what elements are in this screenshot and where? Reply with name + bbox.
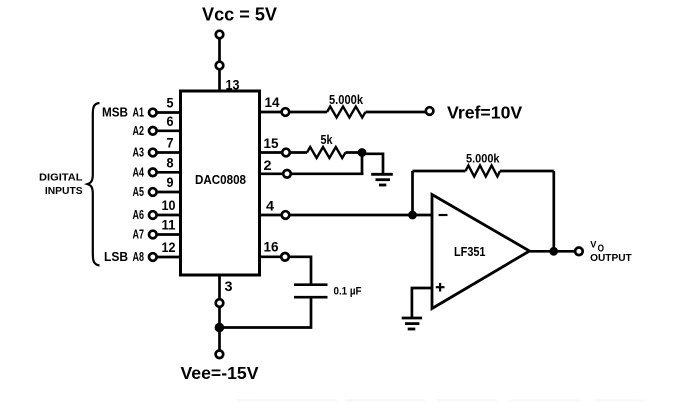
pin number 10 bbox=[162, 198, 176, 213]
junction dot output node bbox=[549, 247, 558, 256]
terminal A8 bbox=[149, 253, 157, 261]
svg-text:0.1 µF: 0.1 µF bbox=[334, 285, 362, 297]
resistor R1 5.000k zigzag bbox=[327, 107, 366, 118]
net label Vref=10V bbox=[447, 103, 523, 123]
svg-text:9: 9 bbox=[167, 175, 174, 190]
wire A2 to pin 6 bbox=[157, 129, 182, 132]
svg-text:A1: A1 bbox=[133, 106, 145, 120]
wire pin 15 to R2 bbox=[259, 151, 364, 154]
capacitor C1 plates bbox=[294, 285, 328, 298]
svg-text:Vref=10V: Vref=10V bbox=[447, 103, 523, 123]
input label A6 bbox=[133, 208, 145, 222]
op-amp U2 label LF351 bbox=[454, 244, 486, 259]
svg-text:4: 4 bbox=[266, 199, 275, 214]
svg-text:10: 10 bbox=[162, 198, 176, 213]
input label A1 bbox=[133, 106, 145, 120]
terminal Vref bbox=[426, 107, 434, 115]
ghost caption fragment bottom bbox=[237, 399, 645, 402]
op-amp U2 triangle bbox=[432, 195, 530, 309]
svg-text:Vcc = 5V: Vcc = 5V bbox=[202, 5, 277, 25]
wire op-amp output bbox=[530, 250, 575, 253]
input label A2 bbox=[133, 124, 145, 138]
svg-text:A2: A2 bbox=[133, 124, 145, 138]
svg-text:LF351: LF351 bbox=[454, 244, 486, 259]
value label 5.000k R1 bbox=[329, 93, 363, 107]
wire node to pin 2 vertical bbox=[361, 153, 364, 174]
connection circle pin 15 bbox=[282, 149, 290, 157]
terminal A7 bbox=[149, 231, 157, 239]
svg-text:A6: A6 bbox=[133, 208, 145, 222]
wire pin 4 to op-amp inverting input bbox=[259, 214, 432, 217]
pin number 16 bbox=[264, 239, 279, 254]
input label A8 bbox=[133, 250, 145, 264]
pin number 14 bbox=[265, 95, 280, 110]
net label VO bbox=[590, 240, 604, 255]
wire pin 2 bbox=[259, 172, 364, 175]
ground G2 bbox=[402, 318, 422, 329]
input label A4 bbox=[133, 165, 145, 179]
value label 5.000k R3 bbox=[466, 151, 500, 165]
wire feedback left vertical bbox=[411, 171, 414, 215]
connection circle pin 4 bbox=[282, 211, 290, 219]
wire Vcc between terminals bbox=[218, 39, 221, 61]
svg-text:LSB: LSB bbox=[104, 249, 128, 264]
svg-text:DIGITAL: DIGITAL bbox=[39, 172, 83, 184]
svg-text:A5: A5 bbox=[133, 185, 145, 199]
resistor R2 5k zigzag bbox=[307, 147, 346, 158]
wire non-inverting input to ground bbox=[412, 288, 432, 317]
wire A7 to pin 11 bbox=[157, 233, 182, 236]
wire A3 to pin 7 bbox=[157, 151, 182, 154]
connection circle pin 14 bbox=[282, 108, 290, 116]
svg-text:11: 11 bbox=[162, 218, 176, 233]
svg-text:OUTPUT: OUTPUT bbox=[590, 253, 632, 264]
label MSB bbox=[102, 105, 128, 120]
svg-text:16: 16 bbox=[264, 239, 279, 254]
junction dot node 15/2 bbox=[358, 148, 367, 157]
op-amp plus sign bbox=[436, 283, 445, 292]
svg-text:A3: A3 bbox=[133, 146, 145, 160]
svg-text:A8: A8 bbox=[133, 250, 145, 264]
svg-text:7: 7 bbox=[167, 136, 174, 151]
terminal Vee bbox=[216, 351, 224, 359]
input label A3 bbox=[133, 146, 145, 160]
wire A1 to pin 5 bbox=[157, 111, 182, 114]
input label A7 bbox=[133, 228, 145, 242]
wire pin 14 to Vref bbox=[259, 111, 426, 114]
label DIGITAL bbox=[39, 172, 83, 184]
terminal A2 bbox=[149, 127, 157, 135]
svg-text:14: 14 bbox=[265, 95, 280, 110]
svg-text:5: 5 bbox=[167, 96, 174, 111]
junction dot Vee node bbox=[215, 323, 225, 333]
terminal A4 bbox=[149, 169, 157, 177]
svg-text:A7: A7 bbox=[133, 228, 145, 242]
connection circle pin 2 bbox=[283, 170, 291, 178]
terminal A3 bbox=[149, 149, 157, 157]
wire node to ground G1 bbox=[362, 154, 383, 173]
pin number 15 bbox=[264, 136, 279, 151]
wire A6 to pin 10 bbox=[157, 214, 182, 217]
ground G1 bbox=[371, 174, 393, 185]
IC U1 label DAC0808 bbox=[195, 172, 246, 187]
svg-text:2: 2 bbox=[264, 158, 272, 173]
svg-text:DAC0808: DAC0808 bbox=[195, 172, 246, 187]
net label Vcc = 5V bbox=[202, 5, 277, 25]
pin number 8 bbox=[167, 155, 174, 170]
wire Vcc to pin 13 bbox=[218, 70, 221, 92]
pin number 3 bbox=[225, 279, 234, 294]
svg-text:5k: 5k bbox=[321, 132, 334, 147]
pin number 2 bbox=[264, 158, 272, 173]
terminal Vcc lower bbox=[216, 62, 224, 70]
svg-text:MSB: MSB bbox=[102, 105, 128, 120]
IC U1 DAC0808 body bbox=[181, 91, 260, 275]
connection circle pin 16 bbox=[281, 253, 289, 261]
svg-text:8: 8 bbox=[167, 155, 174, 170]
pin number 4 bbox=[266, 199, 275, 214]
wire A4 to pin 8 bbox=[157, 171, 182, 174]
resistor R3 5.000k zigzag feedback bbox=[466, 166, 501, 177]
wire feedback top bbox=[413, 170, 554, 173]
terminal Vcc upper bbox=[216, 31, 224, 39]
net label OUTPUT bbox=[590, 253, 632, 264]
terminal A1 bbox=[149, 109, 157, 117]
svg-text:3: 3 bbox=[225, 279, 234, 294]
brace digital inputs bbox=[88, 103, 100, 266]
label INPUTS bbox=[45, 185, 83, 197]
svg-text:5.000k: 5.000k bbox=[329, 93, 363, 107]
pin number 6 bbox=[167, 114, 174, 129]
pin number 5 bbox=[167, 96, 174, 111]
terminal A5 bbox=[149, 188, 157, 196]
wire pin 16 to capacitor C1 bbox=[259, 257, 311, 284]
terminal output bbox=[575, 248, 583, 256]
net label Vee=-15V bbox=[181, 363, 259, 383]
connection circle pin 3 bbox=[216, 299, 224, 307]
svg-text:5.000k: 5.000k bbox=[466, 151, 500, 165]
value label 0.1 uF C1 bbox=[334, 285, 362, 297]
pin number 11 bbox=[162, 218, 176, 233]
pin number 13 bbox=[226, 78, 240, 93]
svg-text:V: V bbox=[590, 240, 597, 251]
op-amp minus sign bbox=[439, 214, 448, 216]
svg-text:INPUTS: INPUTS bbox=[45, 185, 83, 197]
wire A5 to pin 9 bbox=[157, 191, 182, 194]
label LSB bbox=[104, 249, 128, 264]
wire A8 to pin 12 bbox=[157, 256, 182, 259]
pin number 12 bbox=[162, 240, 176, 255]
wire pin 3 to Vee terminal bbox=[218, 275, 221, 354]
svg-text:12: 12 bbox=[162, 240, 176, 255]
junction dot node inverting input bbox=[408, 211, 417, 220]
svg-text:Vee=-15V: Vee=-15V bbox=[181, 363, 259, 383]
wire capacitor C1 to Vee node bbox=[219, 297, 311, 327]
svg-text:15: 15 bbox=[264, 136, 279, 151]
input label A5 bbox=[133, 185, 145, 199]
wire feedback right vertical bbox=[552, 171, 555, 251]
terminal A6 bbox=[149, 211, 157, 219]
value label 5k R2 bbox=[321, 132, 334, 147]
pin number 7 bbox=[167, 136, 174, 151]
svg-text:A4: A4 bbox=[133, 165, 145, 179]
svg-text:6: 6 bbox=[167, 114, 174, 129]
pin number 9 bbox=[167, 175, 174, 190]
